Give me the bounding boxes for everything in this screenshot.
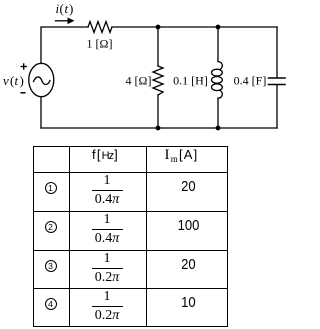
circuit schematic xyxy=(0,0,290,146)
resistor R 1 ohm (series, horizontal) xyxy=(88,22,112,33)
junction node bottom-left xyxy=(156,126,161,131)
inductor L 0.1 H coil bottom hook xyxy=(218,91,222,99)
svg-text:v: v xyxy=(3,73,9,88)
inductor L 0.1 H coil loop 2 xyxy=(212,77,223,84)
junction node top-right (inductor branch) xyxy=(216,25,221,30)
svg-text:): ) xyxy=(69,1,73,16)
minus sign of source xyxy=(21,92,26,94)
inductor L 0.1 H coil loop 1 xyxy=(212,69,223,76)
branch wire inductor vertical upper xyxy=(217,27,219,62)
branch wire 4-ohm vertical upper xyxy=(157,27,159,66)
svg-text:(: ( xyxy=(60,1,64,16)
branch wire inductor vertical lower xyxy=(217,98,219,128)
svg-text:): ) xyxy=(20,73,24,88)
svg-text:0.1 [H]: 0.1 [H] xyxy=(173,74,208,88)
wire top-right segment xyxy=(112,26,277,28)
wire right vertical upper xyxy=(276,27,278,78)
plus sign of source xyxy=(21,63,27,69)
inductor L 0.1 H coil top hook xyxy=(218,62,222,70)
current arrow i(t) xyxy=(56,20,70,22)
junction node bottom-right xyxy=(216,126,221,131)
branch wire 4-ohm vertical lower xyxy=(157,95,159,128)
wire top-left segment xyxy=(41,27,88,64)
svg-text:t: t xyxy=(15,73,19,88)
svg-text:4 [Ω]: 4 [Ω] xyxy=(126,74,152,88)
capacitor C 0.4 F plates xyxy=(269,77,286,79)
wire left vertical lower xyxy=(40,97,42,128)
inductor L 0.1 H coil loop 3 xyxy=(212,84,223,91)
wire bottom xyxy=(41,127,277,129)
resistor R 4 ohm (vertical zigzag) xyxy=(153,66,163,95)
svg-text:0.4 [F]: 0.4 [F] xyxy=(234,74,267,88)
voltage source V ellipse xyxy=(29,63,54,96)
svg-text:1 [Ω]: 1 [Ω] xyxy=(87,37,113,51)
svg-text:t: t xyxy=(65,1,69,16)
junction node top-left (4 ohm branch) xyxy=(156,25,161,30)
current arrowhead xyxy=(68,18,75,25)
answer table xyxy=(33,146,228,327)
wire right vertical lower xyxy=(276,85,278,128)
voltage source sine wave xyxy=(34,77,51,85)
